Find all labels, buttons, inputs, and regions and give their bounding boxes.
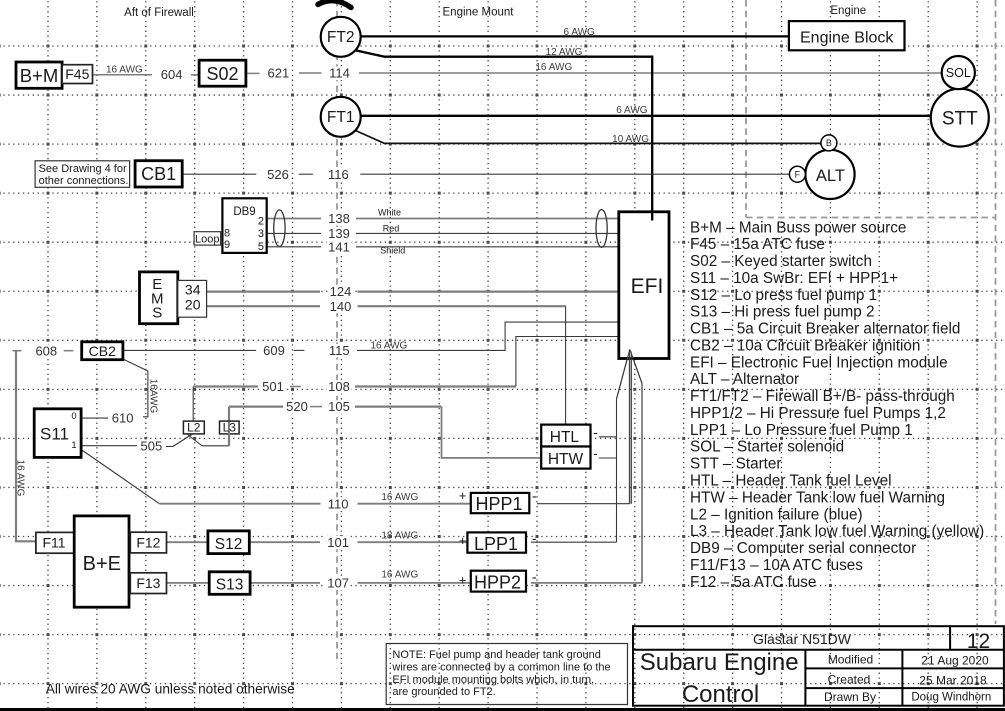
svg-text:16 AWG: 16 AWG xyxy=(15,460,26,497)
svg-text:105: 105 xyxy=(328,399,350,414)
svg-text:HTL – Header Tank fuel Level: HTL – Header Tank fuel Level xyxy=(690,473,892,490)
svg-text:610: 610 xyxy=(112,411,134,426)
svg-text:HPP2: HPP2 xyxy=(474,572,521,592)
svg-text:16AWG: 16AWG xyxy=(148,379,159,414)
svg-text:See Drawing 4 for: See Drawing 4 for xyxy=(39,163,127,175)
svg-text:-: - xyxy=(532,569,537,585)
svg-text:CB2: CB2 xyxy=(89,343,116,359)
svg-text:16 AWG: 16 AWG xyxy=(106,64,143,75)
svg-text:White: White xyxy=(378,208,401,218)
svg-text:21 Aug 2020: 21 Aug 2020 xyxy=(921,654,989,668)
svg-text:SOL – Starter solenoid: SOL – Starter solenoid xyxy=(690,439,844,456)
svg-text:520: 520 xyxy=(286,399,308,414)
svg-text:HTW – Header Tank low fuel War: HTW – Header Tank low fuel Warning xyxy=(690,489,945,506)
svg-text:SOL: SOL xyxy=(946,66,971,80)
svg-text:110: 110 xyxy=(328,496,349,511)
svg-text:HTL: HTL xyxy=(550,429,580,446)
svg-text:F11: F11 xyxy=(42,534,65,550)
svg-text:-: - xyxy=(532,487,537,503)
svg-text:S13: S13 xyxy=(216,577,244,594)
svg-text:EFI module mounting bolts whic: EFI module mounting bolts which, in turn… xyxy=(392,674,594,686)
svg-text:6 AWG: 6 AWG xyxy=(616,105,648,116)
svg-text:20: 20 xyxy=(185,296,201,312)
svg-text:621: 621 xyxy=(268,66,290,81)
svg-text:other connections.: other connections. xyxy=(39,175,129,187)
svg-text:wires are connected by a commo: wires are connected by a common line to … xyxy=(391,661,610,673)
svg-text:0: 0 xyxy=(71,411,76,422)
svg-text:108: 108 xyxy=(328,379,350,394)
svg-text:L2 – Ignition failure (blue): L2 – Ignition failure (blue) xyxy=(690,506,863,523)
svg-text:12: 12 xyxy=(967,630,990,653)
svg-text:All wires 20 AWG unless noted: All wires 20 AWG unless noted otherwise xyxy=(46,682,295,697)
svg-text:HPP1: HPP1 xyxy=(475,494,522,514)
svg-text:ALT: ALT xyxy=(816,167,845,185)
svg-text:Glastar N51DW: Glastar N51DW xyxy=(753,631,852,647)
svg-text:NOTE: Fuel pump and header tan: NOTE: Fuel pump and header tank ground xyxy=(392,649,601,661)
svg-text:HTW: HTW xyxy=(548,451,584,468)
svg-text:501: 501 xyxy=(262,379,284,394)
svg-text:3: 3 xyxy=(258,228,264,240)
svg-text:S02: S02 xyxy=(206,64,238,84)
svg-text:EFI – Electronic Fuel Injectio: EFI – Electronic Fuel Injection module xyxy=(690,354,948,371)
svg-text:Shield: Shield xyxy=(380,245,405,255)
svg-text:S11 – 10a SwBr: EFI + HPP1+: S11 – 10a SwBr: EFI + HPP1+ xyxy=(690,270,898,287)
svg-text:-: - xyxy=(593,445,598,461)
svg-text:Red: Red xyxy=(383,224,400,234)
svg-text:116: 116 xyxy=(328,167,349,182)
svg-text:FT1/FT2 – Firewall B+/B- pass-: FT1/FT2 – Firewall B+/B- pass-through xyxy=(690,388,955,405)
svg-text:DB9 – Computer serial connecto: DB9 – Computer serial connector xyxy=(690,540,916,557)
svg-text:S12 – Lo press fuel pump 1: S12 – Lo press fuel pump 1 xyxy=(690,287,877,304)
svg-text:FT2: FT2 xyxy=(327,29,355,46)
svg-text:138: 138 xyxy=(328,211,350,226)
svg-text:STT – Starter: STT – Starter xyxy=(690,456,782,473)
svg-text:25 Mar 2018: 25 Mar 2018 xyxy=(919,673,987,687)
svg-text:Drawn By: Drawn By xyxy=(824,690,876,704)
svg-text:+: + xyxy=(459,533,467,548)
svg-text:Aft of Firewall: Aft of Firewall xyxy=(124,7,194,19)
svg-text:L3 – Header Tank low fuel Warn: L3 – Header Tank low fuel Warning (yello… xyxy=(690,523,984,540)
svg-text:F11/F13 – 10A ATC fuses: F11/F13 – 10A ATC fuses xyxy=(690,557,863,574)
svg-text:CB1: CB1 xyxy=(141,164,176,184)
svg-text:CB2 – 10a Circuit Breaker igni: CB2 – 10a Circuit Breaker ignition xyxy=(690,337,920,354)
svg-text:-: - xyxy=(593,424,598,440)
svg-text:609: 609 xyxy=(263,343,285,358)
svg-text:S12: S12 xyxy=(215,536,243,553)
svg-text:FT1: FT1 xyxy=(327,109,355,126)
svg-text:114: 114 xyxy=(329,66,350,81)
svg-text:Control: Control xyxy=(682,681,759,708)
svg-text:S02 – Keyed starter switch: S02 – Keyed starter switch xyxy=(690,253,872,270)
svg-text:526: 526 xyxy=(267,167,289,182)
svg-text:EFI: EFI xyxy=(631,275,664,298)
svg-text:Doug Windhorn: Doug Windhorn xyxy=(911,692,991,704)
svg-text:115: 115 xyxy=(329,343,350,358)
svg-text:Engine Mount: Engine Mount xyxy=(443,7,515,19)
svg-text:B+M – Main Buss power source: B+M – Main Buss power source xyxy=(690,219,906,236)
svg-text:B: B xyxy=(826,138,832,148)
svg-text:Modified: Modified xyxy=(828,653,873,667)
svg-text:8: 8 xyxy=(224,227,230,239)
svg-text:18 AWG: 18 AWG xyxy=(381,531,418,542)
svg-text:12 AWG: 12 AWG xyxy=(546,47,583,58)
svg-text:ALT – Alternator: ALT – Alternator xyxy=(690,371,799,388)
svg-text:S11: S11 xyxy=(40,425,69,444)
svg-text:B+M: B+M xyxy=(20,65,59,86)
svg-text:L3: L3 xyxy=(223,421,237,435)
svg-text:+: + xyxy=(459,573,467,588)
svg-text:505: 505 xyxy=(141,438,163,453)
svg-text:Engine: Engine xyxy=(830,5,866,17)
svg-text:10 AWG: 10 AWG xyxy=(612,134,649,145)
svg-text:L2: L2 xyxy=(187,421,201,435)
svg-text:LPP1 – Lo Pressure fuel Pump 1: LPP1 – Lo Pressure fuel Pump 1 xyxy=(690,422,913,439)
svg-text:16 AWG: 16 AWG xyxy=(535,62,572,73)
svg-text:F12 – 5a ATC fuse: F12 – 5a ATC fuse xyxy=(690,574,816,591)
svg-text:HPP1/2 – Hi Pressure fuel Pump: HPP1/2 – Hi Pressure fuel Pumps 1,2 xyxy=(690,405,946,422)
svg-text:6 AWG: 6 AWG xyxy=(564,27,596,38)
svg-text:9: 9 xyxy=(224,239,230,251)
svg-text:140: 140 xyxy=(330,299,352,314)
svg-text:F: F xyxy=(795,169,801,179)
svg-text:F45 – 15a ATC fuse: F45 – 15a ATC fuse xyxy=(690,236,825,253)
svg-text:F45: F45 xyxy=(65,66,89,82)
svg-text:B+E: B+E xyxy=(83,553,121,575)
svg-text:5: 5 xyxy=(258,241,264,253)
svg-text:608: 608 xyxy=(35,343,57,358)
svg-text:124: 124 xyxy=(330,284,352,299)
svg-text:1: 1 xyxy=(71,440,76,451)
svg-text:16 AWG: 16 AWG xyxy=(370,341,407,352)
svg-text:Loop: Loop xyxy=(195,234,219,246)
svg-text:2: 2 xyxy=(258,215,264,227)
svg-text:16 AWG: 16 AWG xyxy=(381,570,418,581)
svg-text:Engine Block: Engine Block xyxy=(800,29,894,46)
svg-text:DB9: DB9 xyxy=(233,206,255,218)
svg-text:107: 107 xyxy=(327,576,349,591)
svg-text:S13 – Hi press fuel pump 2: S13 – Hi press fuel pump 2 xyxy=(690,304,875,321)
svg-text:141: 141 xyxy=(328,239,350,254)
svg-text:101: 101 xyxy=(327,535,349,550)
svg-text:STT: STT xyxy=(942,108,978,129)
svg-text:F12: F12 xyxy=(136,534,160,550)
svg-text:-: - xyxy=(532,530,537,546)
svg-text:Subaru Engine: Subaru Engine xyxy=(640,649,799,676)
svg-text:S: S xyxy=(152,305,162,322)
svg-text:LPP1: LPP1 xyxy=(474,534,518,554)
svg-text:16 AWG: 16 AWG xyxy=(381,492,418,503)
svg-text:CB1 – 5a Circuit Breaker alter: CB1 – 5a Circuit Breaker alternator fiel… xyxy=(690,321,960,338)
svg-text:F13: F13 xyxy=(136,575,160,591)
svg-text:are grounded to FT2.: are grounded to FT2. xyxy=(392,686,495,698)
svg-text:+: + xyxy=(459,488,467,503)
svg-text:Created: Created xyxy=(828,672,871,686)
svg-text:604: 604 xyxy=(161,67,183,82)
svg-text:34: 34 xyxy=(185,282,201,298)
